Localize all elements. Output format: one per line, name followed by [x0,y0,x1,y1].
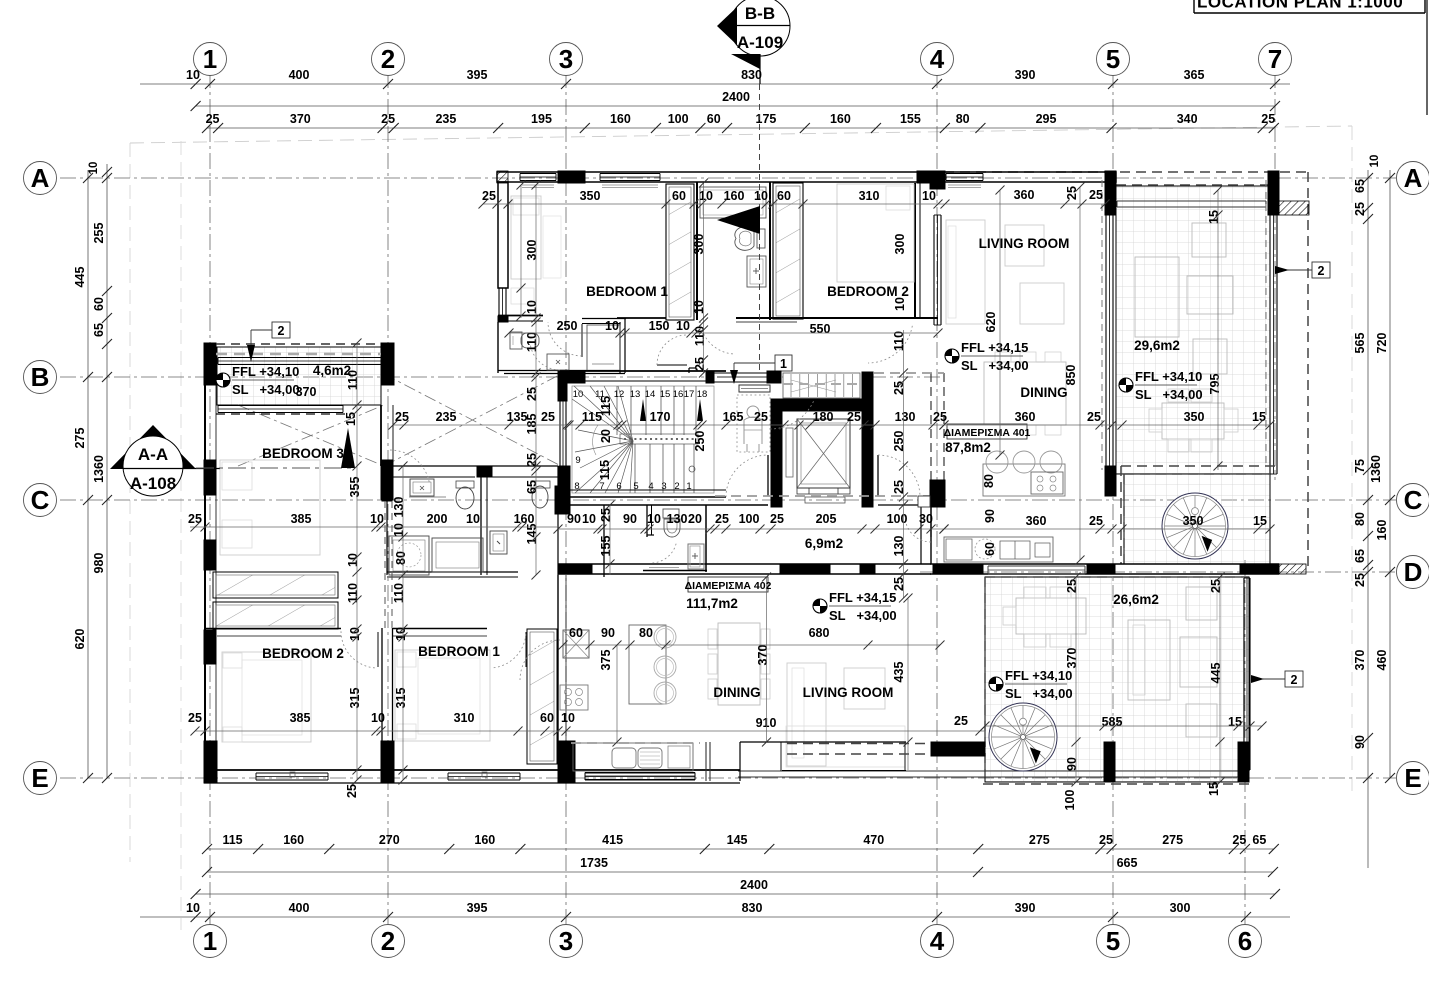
svg-text:10: 10 [370,512,384,526]
svg-text:25: 25 [1353,573,1367,587]
entrance door [714,373,770,382]
svg-text:18: 18 [697,389,708,400]
svg-text:D: D [1404,557,1423,587]
grid bubbles right [1397,162,1429,195]
svg-text:BEDROOM 1: BEDROOM 1 [586,284,668,299]
overhang dashes over corridor [715,495,944,497]
svg-text:E: E [31,763,48,793]
svg-text:A: A [31,163,50,193]
wardrobe strips [213,572,338,598]
left bath toilet [510,332,522,349]
section A-A marker [110,425,196,469]
svg-text:300: 300 [893,234,907,255]
svg-text:10: 10 [605,319,619,333]
svg-text:390: 390 [1015,68,1036,82]
svg-text:155: 155 [900,112,921,126]
svg-text:340: 340 [1177,112,1198,126]
svg-text:DINING: DINING [713,685,760,700]
svg-text:435: 435 [892,662,906,683]
top dimension chain columns [140,83,1290,85]
svg-text:10: 10 [922,189,936,203]
svg-text:110: 110 [346,370,360,390]
svg-text:20: 20 [599,429,613,443]
top wall column c4 [917,171,945,183]
kitchen 401 sink counter [944,537,1053,562]
corridor door leaf [657,364,687,366]
bottom chain columns [140,916,1290,918]
svg-text:60: 60 [983,542,997,556]
svg-text:C: C [1404,485,1423,515]
svg-text:185: 185 [525,414,539,435]
upper bath counter [700,187,766,218]
kitchen 402 hob [560,685,588,710]
svg-text:17: 17 [684,389,695,400]
terrace 29,6m2 tiles [1116,186,1270,474]
terrace26 sofa [1128,620,1170,700]
svg-text:25: 25 [1261,112,1275,126]
svg-text:160: 160 [830,112,851,126]
svg-text:5: 5 [1106,44,1120,74]
svg-text:29,6m2: 29,6m2 [1134,338,1180,353]
svg-text:395: 395 [467,68,488,82]
kitchen 402 counter [573,743,693,771]
stair flight above lift [783,373,860,398]
svg-text:300: 300 [1170,901,1191,915]
svg-text:LOCATION PLAN 1:1000: LOCATION PLAN 1:1000 [1197,0,1403,12]
terrace26 table [1016,598,1086,634]
svg-text:FFL +34,15: FFL +34,15 [961,340,1028,355]
svg-text:130: 130 [392,497,406,518]
svg-text:25: 25 [206,112,220,126]
svg-text:65: 65 [525,480,539,494]
upper apartment left wall [498,182,508,288]
svg-text:10: 10 [573,389,584,400]
svg-text:25: 25 [1089,514,1103,528]
svg-text:300: 300 [692,234,706,255]
stairwell [572,386,714,493]
svg-text:720: 720 [1375,333,1389,354]
svg-text:355: 355 [348,477,362,498]
left bath shower [582,318,626,320]
svg-text:DINING: DINING [1020,385,1067,400]
FFL 402 [813,599,827,613]
svg-text:235: 235 [436,410,457,424]
living room left window [933,215,935,325]
lower left bottom wall row E [204,769,740,771]
WC2 toilet [531,481,550,488]
left bath sink [547,354,569,370]
svg-text:A: A [1404,163,1423,193]
svg-text:E: E [1404,763,1421,793]
grid bubbles top [194,43,227,76]
svg-text:130: 130 [895,410,916,424]
svg-text:BEDROOM 2: BEDROOM 2 [827,284,909,299]
grid axis lines [209,72,211,928]
site boundary [130,126,1352,143]
svg-text:310: 310 [454,711,475,725]
svg-text:460: 460 [1375,650,1389,671]
terrace mid tiles [1124,474,1270,564]
svg-text:BEDROOM 3: BEDROOM 3 [262,446,344,461]
svg-text:B: B [31,362,50,392]
svg-text:4: 4 [930,44,945,74]
grid bubbles bottom [194,925,227,958]
svg-text:365: 365 [1184,68,1205,82]
bedroom3 walls [204,385,206,770]
svg-text:3: 3 [559,44,573,74]
bedroom1 top wall [393,628,487,630]
upper bedrooms window dim marks [520,185,522,318]
FFL balcony 4,6 [216,373,230,387]
svg-text:315: 315 [348,688,362,709]
svg-text:10: 10 [88,162,100,175]
svg-text:BEDROOM 1: BEDROOM 1 [418,644,500,659]
svg-text:830: 830 [742,901,763,915]
kitchen 402 wall left [557,575,559,742]
bottom chain 2400 [196,893,1275,895]
svg-text:25: 25 [892,480,906,494]
svg-text:25: 25 [599,508,613,522]
svg-text:75: 75 [1353,459,1367,473]
svg-text:155: 155 [599,536,613,557]
svg-text:80: 80 [394,551,408,565]
svg-text:SL +34,00: SL +34,00 [829,608,897,623]
svg-text:360: 360 [1014,188,1035,202]
hatch block right of terrace top [1279,201,1309,215]
svg-text:175: 175 [756,112,777,126]
svg-text:10: 10 [893,297,907,311]
svg-text:2400: 2400 [740,878,768,892]
svg-text:110: 110 [346,583,360,603]
svg-text:200: 200 [427,512,448,526]
svg-text:160: 160 [610,112,631,126]
svg-text:130: 130 [667,512,688,526]
black column living SE [1105,466,1116,496]
svg-text:6: 6 [1238,926,1252,956]
svg-text:275: 275 [73,428,87,449]
living 402 sofa [787,663,826,766]
top wall windows [520,173,556,175]
door arcs [868,326,912,363]
section B-B marker [730,0,790,56]
mid bath sink [410,479,434,496]
svg-text:10: 10 [392,523,406,537]
svg-text:300: 300 [525,240,539,261]
apartment name boxes [947,424,1027,439]
row D wall [930,563,1279,565]
svg-text:111,7m2: 111,7m2 [686,596,738,611]
svg-text:390: 390 [1015,901,1036,915]
svg-text:15: 15 [1228,715,1242,729]
top exterior wall [497,172,1116,182]
svg-text:25: 25 [188,711,202,725]
upper bath toilet [757,229,765,248]
svg-text:2400: 2400 [722,90,750,104]
svg-text:275: 275 [1162,833,1183,847]
living 402 south threshold [740,741,906,743]
svg-text:350: 350 [1183,514,1204,528]
svg-text:370: 370 [1065,648,1079,669]
svg-text:160: 160 [1375,520,1389,541]
svg-text:7: 7 [1268,44,1282,74]
svg-text:445: 445 [1209,663,1223,684]
svg-text:BEDROOM 2: BEDROOM 2 [262,646,344,661]
svg-text:65: 65 [1353,179,1367,193]
svg-text:145: 145 [727,833,748,847]
svg-text:665: 665 [1117,856,1138,870]
svg-text:10: 10 [525,300,539,314]
svg-text:5: 5 [1106,926,1120,956]
svg-text:SL +34,00: SL +34,00 [232,382,300,397]
svg-text:250: 250 [557,319,578,333]
svg-text:370: 370 [1353,650,1367,671]
svg-text:80: 80 [956,112,970,126]
svg-text:680: 680 [809,626,830,640]
svg-text:25: 25 [892,381,906,395]
svg-text:60: 60 [540,711,554,725]
svg-text:30: 30 [919,512,933,526]
svg-text:16: 16 [673,389,684,400]
top wall column at c5 [1105,171,1116,215]
bottom dimension chain detail [207,848,1274,850]
svg-text:370: 370 [296,385,317,399]
svg-text:2: 2 [381,926,395,956]
svg-text:2: 2 [1318,264,1325,278]
svg-text:310: 310 [859,189,880,203]
svg-text:25: 25 [345,784,359,798]
svg-text:270: 270 [379,833,400,847]
bedroom2 top wall [205,628,341,630]
svg-text:275: 275 [1029,833,1050,847]
svg-text:160: 160 [474,833,495,847]
svg-text:445: 445 [73,267,87,288]
FFL terrace 29,6 [1119,378,1133,392]
svg-text:2: 2 [381,44,395,74]
svg-text:10: 10 [754,189,768,203]
stair left window [559,386,561,466]
FFL 401 [945,349,959,363]
svg-text:10: 10 [186,901,200,915]
svg-text:90: 90 [567,512,581,526]
svg-text:90: 90 [601,626,615,640]
svg-text:SL +34,00: SL +34,00 [1005,686,1073,701]
svg-text:295: 295 [1036,112,1057,126]
svg-text:90: 90 [623,512,637,526]
bedroom1 lower bed [395,650,490,741]
svg-text:60: 60 [777,189,791,203]
svg-text:65: 65 [1252,833,1266,847]
svg-text:15: 15 [1252,410,1266,424]
svg-text:1360: 1360 [92,455,106,483]
svg-text:2: 2 [1291,673,1298,687]
top dimension chain total 2400 [196,105,1275,107]
svg-text:315: 315 [394,688,408,709]
top wall column c3 [558,171,585,183]
mid bath shower [389,536,429,575]
svg-text:FFL +34,15: FFL +34,15 [829,590,896,605]
spiral stair upper [1162,493,1228,559]
svg-text:25: 25 [1087,410,1101,424]
bath wall left [696,182,698,320]
svg-text:3: 3 [559,926,573,956]
svg-text:470: 470 [863,833,884,847]
svg-text:SL +34,00: SL +34,00 [1135,387,1203,402]
svg-text:350: 350 [1184,410,1205,424]
svg-text:10: 10 [1369,155,1381,168]
svg-text:100: 100 [739,512,760,526]
WC2 sink [490,531,507,554]
svg-text:10: 10 [582,512,596,526]
svg-text:115: 115 [599,396,613,416]
svg-text:10: 10 [371,711,385,725]
left dimension chains [87,170,89,778]
corridor bottom wall [558,563,931,565]
svg-text:1735: 1735 [580,856,608,870]
svg-text:1360: 1360 [1369,455,1383,483]
svg-text:65: 65 [92,323,106,337]
bed top-left bedroom1 up [511,196,541,279]
svg-text:4: 4 [930,926,945,956]
svg-text:60: 60 [707,112,721,126]
svg-text:A-108: A-108 [130,474,176,493]
svg-text:980: 980 [92,553,106,574]
door post kitchen 402 [705,742,707,781]
balcony 4,6m2 tiles [217,347,381,405]
svg-text:25: 25 [847,410,861,424]
stair landing [620,434,698,444]
svg-text:415: 415 [602,833,623,847]
living room 401 furniture [946,220,985,324]
corridor cross [384,374,561,466]
svg-text:370: 370 [290,112,311,126]
bottom chain 1735/665 [207,871,1273,873]
svg-text:385: 385 [291,512,312,526]
svg-text:25: 25 [715,512,729,526]
svg-text:830: 830 [741,68,762,82]
svg-text:80: 80 [639,626,653,640]
mid bath toilet [456,481,474,488]
svg-text:255: 255 [92,223,106,244]
svg-text:25: 25 [381,112,395,126]
svg-text:15: 15 [1207,782,1221,796]
stair bottom wall [567,489,726,491]
bottom right columns [1104,742,1115,782]
svg-text:ΔΙΑΜΕΡΙΣΜΑ 402: ΔΙΑΜΕΡΙΣΜΑ 402 [685,580,772,592]
lift walls [771,399,782,507]
FFL terrace 26,6 [989,677,1003,691]
disabled WC [739,385,770,392]
lift door bottom [797,488,809,494]
marker 2 right upper [1312,262,1330,278]
svg-text:170: 170 [650,410,671,424]
svg-text:25: 25 [1065,186,1079,200]
location plan box [1193,0,1195,13]
svg-text:13: 13 [630,389,641,400]
marker 2 right lower [1285,671,1303,687]
terrace 29,6 balustrade [1117,200,1266,202]
svg-text:350: 350 [580,189,601,203]
svg-text:165: 165 [723,410,744,424]
terrace dining table [1162,403,1224,439]
bath wall right [769,182,771,320]
top dimension chain detail [207,127,1274,129]
svg-text:A-109: A-109 [737,33,783,52]
svg-text:250: 250 [693,431,707,452]
svg-text:90: 90 [1353,735,1367,749]
mid bath tub [432,538,483,572]
svg-text:25: 25 [754,410,768,424]
bedroom1 lower closet [527,629,557,764]
upper bath sink [747,256,766,287]
svg-text:25: 25 [1099,833,1113,847]
svg-text:C: C [31,485,50,515]
column c3 mid [558,371,585,383]
svg-text:LIVING ROOM: LIVING ROOM [979,236,1070,251]
svg-text:65: 65 [1353,549,1367,563]
svg-text:10: 10 [699,189,713,203]
svg-text:FFL +34,10: FFL +34,10 [1135,369,1202,384]
bedroom1 wardrobe [666,184,694,320]
svg-text:160: 160 [724,189,745,203]
svg-text:400: 400 [289,901,310,915]
bottom wall 402 [585,772,695,774]
svg-text:160: 160 [283,833,304,847]
svg-text:25: 25 [1232,833,1246,847]
bedroom2 wardrobe [773,183,803,319]
svg-text:100: 100 [1063,790,1077,811]
WC door arc [651,544,676,563]
svg-text:795: 795 [1208,374,1222,395]
svg-text:10: 10 [561,711,575,725]
svg-text:375: 375 [599,650,613,671]
hall 401 overhang dashes [930,373,932,480]
svg-text:SL +34,00: SL +34,00 [961,358,1029,373]
balcony 4,6m2 [204,343,216,385]
svg-text:60: 60 [569,626,583,640]
svg-text:25: 25 [525,387,539,401]
svg-text:ΔΙΑΜΕΡΙΣΜΑ 401: ΔΙΑΜΕΡΙΣΜΑ 401 [944,427,1031,439]
grid bubbles left [24,162,57,195]
svg-text:FFL +34,10: FFL +34,10 [1005,668,1072,683]
corridor walls [558,504,768,506]
svg-text:1: 1 [780,357,787,371]
svg-text:25: 25 [1089,188,1103,202]
mid bath walls [386,466,388,575]
svg-text:6,9m2: 6,9m2 [805,536,843,551]
bedroom2 right wall [914,183,916,318]
svg-text:15: 15 [1207,210,1221,224]
kitchen 401 left wall [920,505,922,564]
terrace 26,6m2 tiles [985,577,1249,782]
svg-text:395: 395 [467,901,488,915]
terrace inner dashed outline [1265,180,1267,466]
svg-text:130: 130 [892,536,906,557]
svg-text:565: 565 [1353,333,1367,354]
stair band top wall [558,370,726,372]
lift car [797,419,850,488]
svg-text:110: 110 [392,583,406,603]
WC near stair [603,505,605,577]
svg-text:A-A: A-A [138,445,168,464]
svg-text:60: 60 [92,297,106,311]
hall door leaves [767,455,769,496]
svg-text:110: 110 [525,332,539,352]
bed bedroom2 up [837,184,914,282]
WC toilet [663,509,679,518]
svg-text:110: 110 [892,331,906,351]
svg-text:15: 15 [1253,514,1267,528]
living room right window wall [1105,215,1107,466]
